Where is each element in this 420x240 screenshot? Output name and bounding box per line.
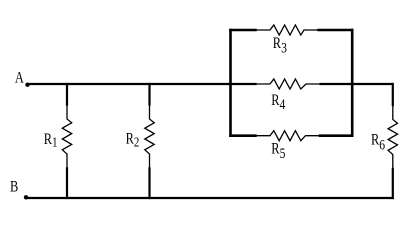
svg-text:B: B [10,178,18,196]
wire parallel block left vertical [229,29,232,137]
wire R1 top lead [66,83,68,106]
wire R6 bottom lead [392,168,394,199]
node A [15,69,30,87]
wire R2 bottom lead [148,167,150,199]
wire parallel block right vertical [351,29,354,137]
wire node B bottom rail [26,197,394,199]
wire R4 to R6 branch [320,83,394,85]
svg-text:R3: R3 [273,35,287,56]
svg-text:A: A [15,69,25,87]
wire R3 left lead [229,29,257,32]
wire R5 left lead [229,134,257,137]
wire R6 top lead [392,83,394,106]
resistor R4 [256,79,320,113]
svg-text:R5: R5 [271,140,285,161]
svg-text:R2: R2 [126,130,140,149]
svg-text:R1: R1 [44,131,58,150]
wire R1 bottom lead [66,167,68,199]
wire R2 top lead [148,83,150,106]
svg-text:R4: R4 [271,92,285,113]
wire R5 right lead [319,134,354,137]
wire node A to R4 [28,83,257,85]
resistor R2 [126,106,155,168]
node B [10,178,28,199]
svg-text:R6: R6 [371,131,385,152]
wire R3 right lead [317,29,353,32]
resistor R1 [44,106,72,168]
resistor R3 [256,25,317,56]
resistor R5 [256,131,319,162]
resistor R6 [371,106,398,168]
